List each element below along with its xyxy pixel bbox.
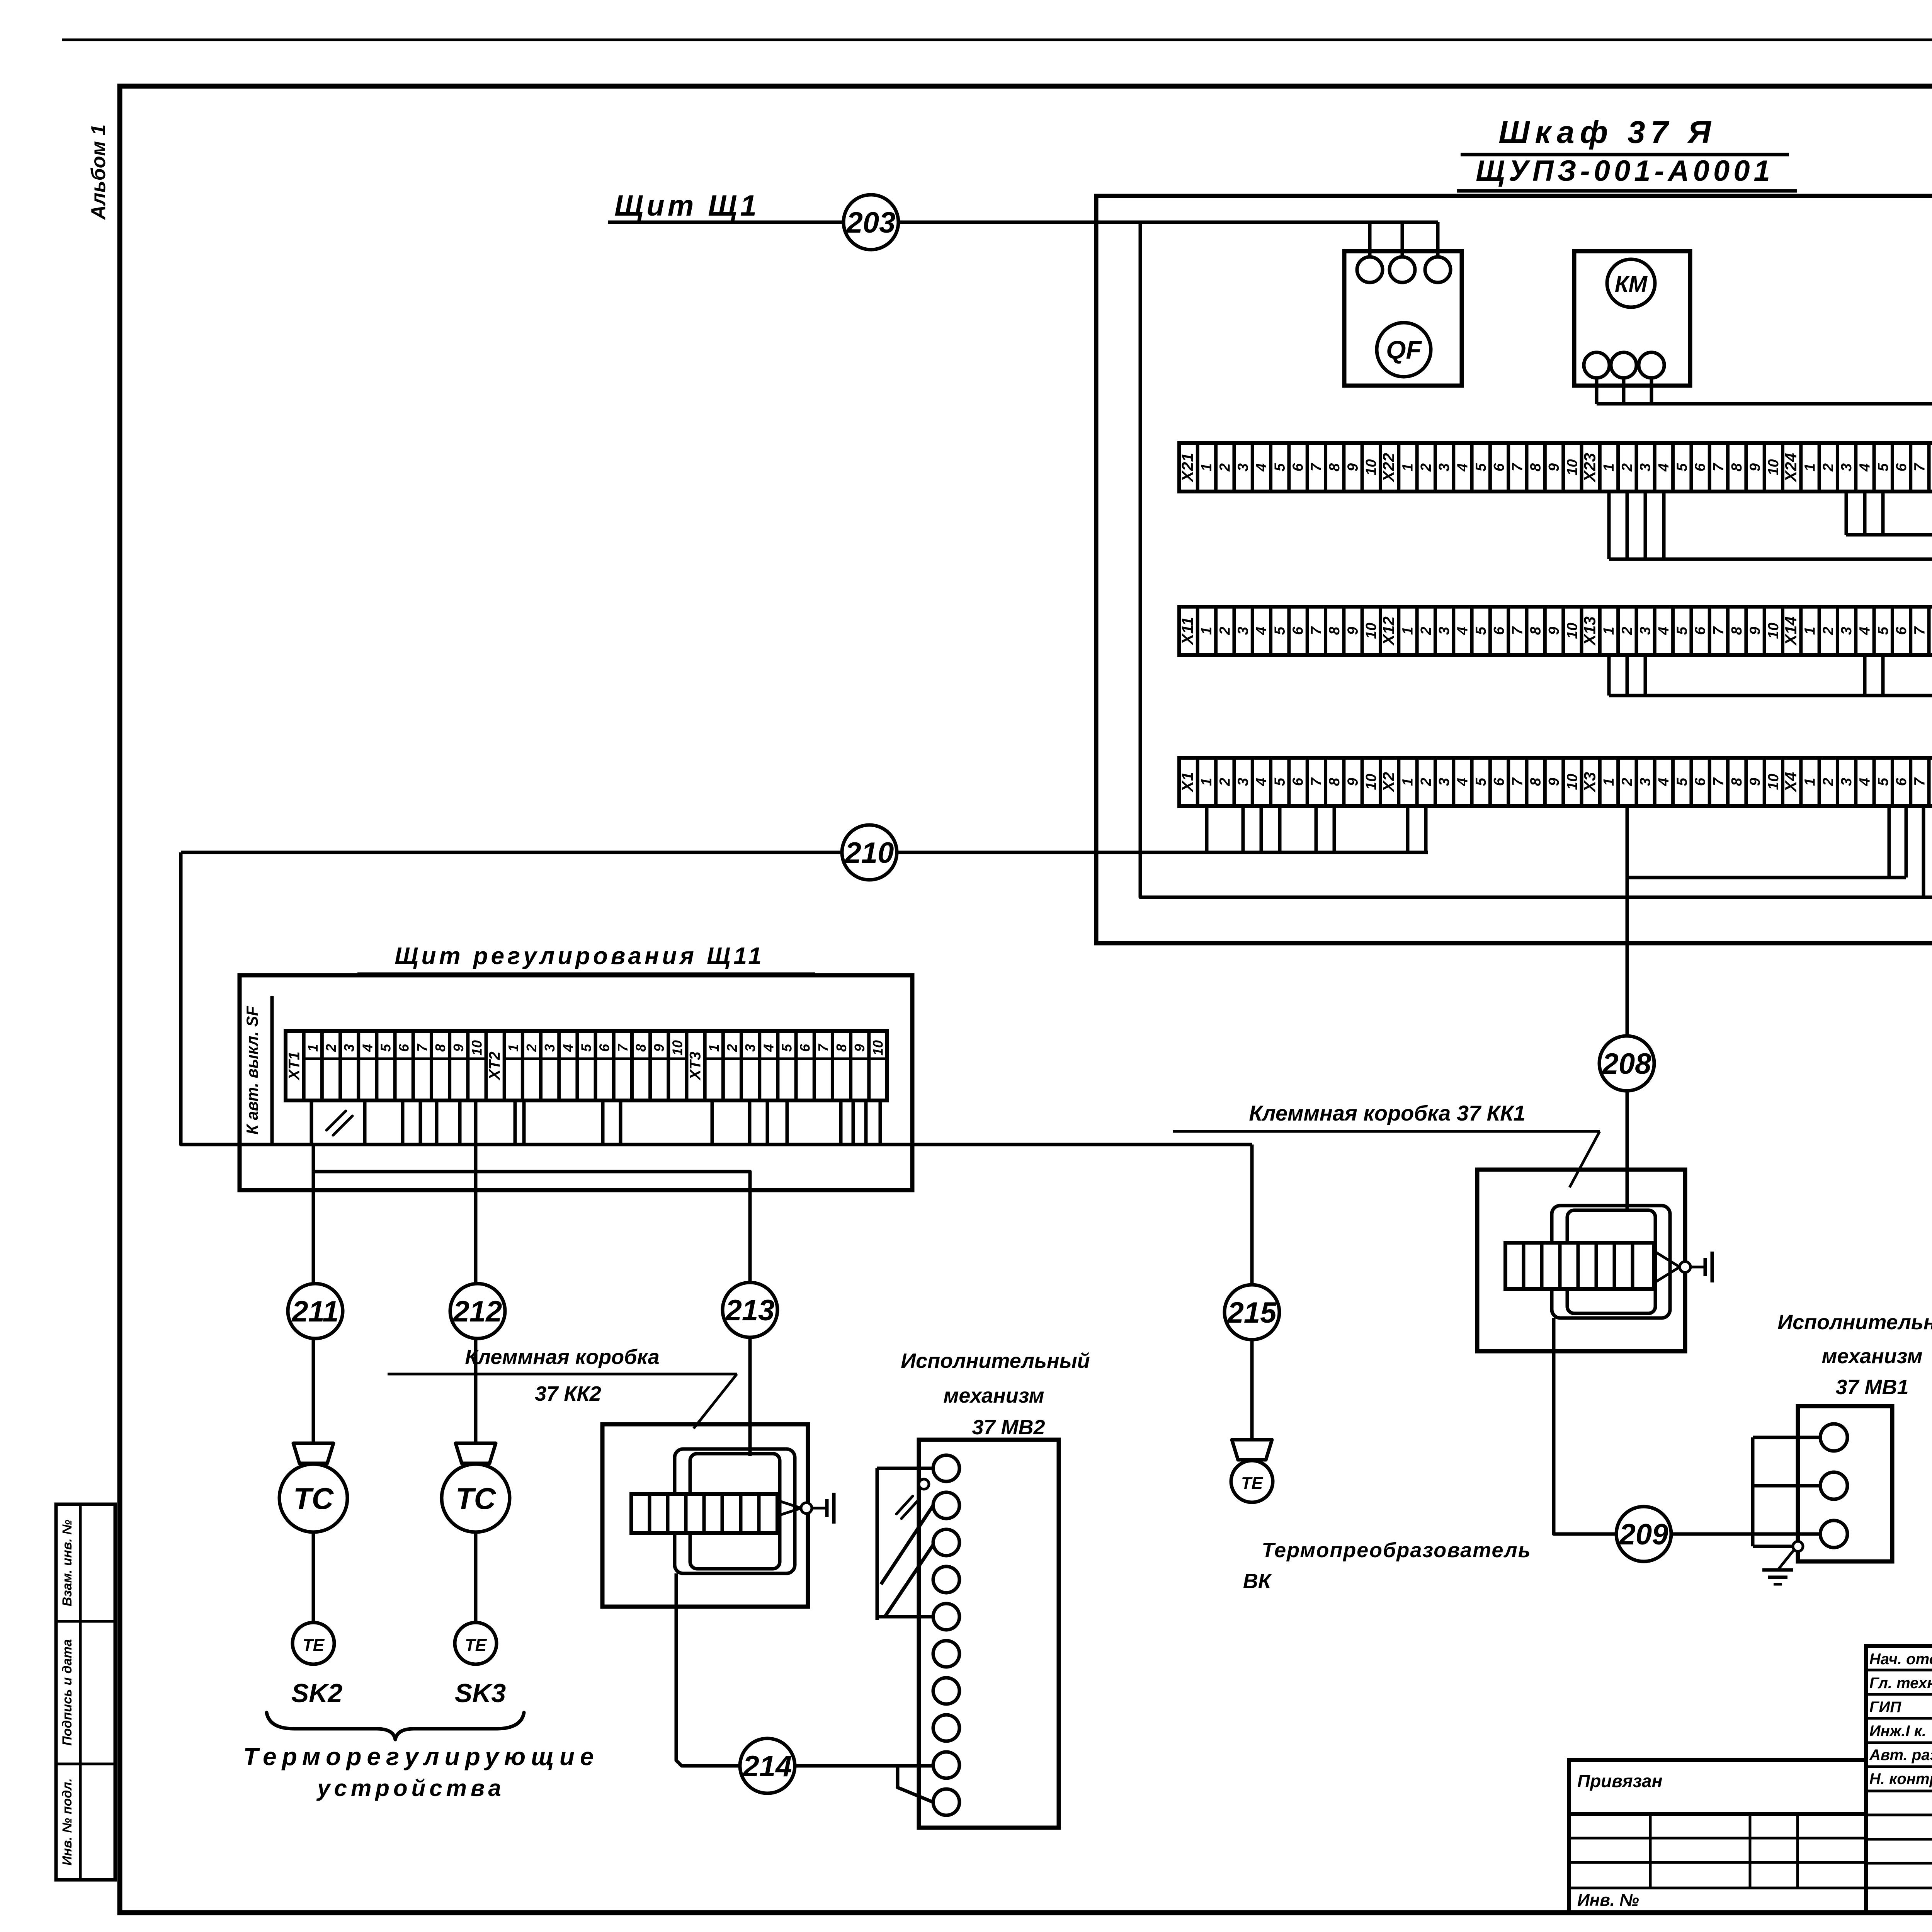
- svg-text:1: 1: [1199, 463, 1215, 471]
- svg-text:5: 5: [779, 1044, 795, 1052]
- wire 207 bus: [1609, 694, 1932, 697]
- svg-text:X12: X12: [1379, 616, 1398, 646]
- svg-text:10: 10: [1765, 622, 1782, 639]
- svg-text:Гл. техн-: Гл. техн-: [1869, 1675, 1932, 1692]
- svg-text:ТЕ: ТЕ: [465, 1636, 487, 1655]
- svg-text:Клеммная коробка 37 КК1: Клеммная коробка 37 КК1: [1249, 1101, 1525, 1125]
- junction box КК1: [1477, 1170, 1685, 1351]
- КК2 terminal block: [631, 1494, 777, 1533]
- svg-text:203: 203: [846, 206, 896, 239]
- svg-text:7: 7: [1912, 626, 1928, 635]
- svg-text:1: 1: [505, 1044, 521, 1052]
- wire 207 drops from X14 cells 4-5: [1863, 655, 1867, 696]
- page scan border: [62, 39, 1932, 41]
- svg-text:3: 3: [1838, 627, 1855, 635]
- svg-text:8: 8: [1327, 777, 1343, 786]
- svg-text:9: 9: [852, 1044, 867, 1052]
- wire 212 vertical: [474, 1145, 478, 1443]
- svg-text:8: 8: [833, 1044, 849, 1052]
- svg-text:SK2: SK2: [291, 1679, 342, 1708]
- svg-text:QF: QF: [1386, 335, 1422, 364]
- svg-text:Клеммная коробка: Клеммная коробка: [465, 1345, 659, 1369]
- svg-text:Инж.I к.: Инж.I к.: [1869, 1723, 1926, 1740]
- svg-text:9: 9: [1345, 463, 1361, 471]
- svg-text:1: 1: [1601, 463, 1617, 471]
- svg-text:7: 7: [1308, 626, 1325, 635]
- svg-text:4: 4: [560, 1044, 576, 1052]
- svg-text:3: 3: [1436, 463, 1452, 471]
- junction box КК2: [602, 1424, 808, 1607]
- regulator panel Щ11 box: [240, 975, 912, 1190]
- svg-text:8: 8: [1528, 626, 1544, 635]
- svg-text:2: 2: [524, 1044, 539, 1052]
- svg-text:1: 1: [1601, 778, 1617, 786]
- svg-text:Терморегулирующие: Терморегулирующие: [243, 1743, 599, 1770]
- svg-text:210: 210: [844, 837, 894, 869]
- svg-text:X13: X13: [1581, 616, 1599, 646]
- actuator МВ2 box: [919, 1440, 1059, 1828]
- svg-text:ТС: ТС: [293, 1481, 334, 1515]
- thermal converter funnel: [1232, 1440, 1272, 1460]
- svg-text:8: 8: [1528, 777, 1544, 786]
- svg-text:10: 10: [1765, 459, 1782, 475]
- svg-text:Альбом 1: Альбом 1: [87, 124, 110, 221]
- thermal sensor TE SK2: [293, 1622, 334, 1664]
- svg-text:6: 6: [797, 1044, 813, 1052]
- QF pole terminals: [1357, 257, 1383, 282]
- svg-text:3: 3: [1638, 463, 1654, 471]
- svg-text:9: 9: [1546, 778, 1562, 786]
- svg-text:8: 8: [1729, 463, 1745, 471]
- svg-text:5: 5: [1272, 777, 1288, 786]
- wire bus to 215: [912, 1143, 1252, 1146]
- svg-text:6: 6: [1893, 626, 1910, 635]
- wire 213 into box КК2: [748, 1310, 752, 1456]
- svg-text:ТС: ТС: [456, 1481, 497, 1515]
- svg-text:2: 2: [1418, 463, 1434, 472]
- wire 203 horizontal from panel Щ1 into cabinet: [608, 221, 1438, 224]
- wire 208 vertical from X3 cell 2 to box КК1: [1626, 806, 1629, 1212]
- МВ1 terminals: [1820, 1424, 1847, 1451]
- svg-text:7: 7: [1912, 463, 1928, 471]
- svg-text:4: 4: [359, 1044, 375, 1052]
- svg-text:4: 4: [1857, 778, 1873, 786]
- svg-text:X11: X11: [1179, 617, 1197, 646]
- svg-text:3: 3: [1436, 627, 1452, 635]
- svg-text:7: 7: [1912, 777, 1928, 786]
- svg-text:9: 9: [1747, 778, 1764, 786]
- svg-text:2: 2: [1820, 627, 1837, 635]
- svg-text:5: 5: [1674, 626, 1690, 635]
- svg-text:4: 4: [1857, 463, 1873, 472]
- breaker QF box: [1344, 251, 1462, 386]
- svg-text:1: 1: [1802, 627, 1818, 635]
- КК2 cable frame outer: [675, 1449, 795, 1573]
- svg-text:X4: X4: [1782, 772, 1800, 793]
- svg-text:7: 7: [815, 1043, 831, 1052]
- svg-text:8: 8: [1327, 463, 1343, 471]
- svg-text:7: 7: [1711, 463, 1727, 471]
- wire 203 drop inside cabinet: [1140, 222, 1932, 897]
- svg-text:37 КК2: 37 КК2: [535, 1382, 601, 1405]
- svg-text:3: 3: [1838, 778, 1855, 786]
- cable circle 215: [1225, 1285, 1279, 1340]
- svg-text:4: 4: [1454, 627, 1471, 635]
- svg-text:6: 6: [597, 1044, 612, 1052]
- svg-text:4: 4: [760, 1044, 776, 1052]
- label К авт. выкл. SF: [270, 996, 274, 1145]
- svg-text:7: 7: [1509, 626, 1526, 635]
- svg-text:Термопреобразователь: Термопреобразователь: [1262, 1539, 1531, 1562]
- wire PE riser to X4 cell 7: [1922, 806, 1925, 897]
- svg-text:6: 6: [1491, 777, 1507, 786]
- KM output terminals: [1584, 352, 1609, 378]
- svg-text:XT1: XT1: [286, 1051, 303, 1080]
- svg-text:5: 5: [1875, 463, 1891, 471]
- svg-text:3: 3: [1235, 463, 1252, 471]
- svg-text:6: 6: [1893, 463, 1910, 471]
- svg-text:10: 10: [469, 1040, 485, 1056]
- terminal strip XT1 XT2 XT3: [286, 1031, 887, 1100]
- cable circle 213: [723, 1282, 777, 1337]
- svg-text:Шкаф 37 Я: Шкаф 37 Я: [1498, 115, 1716, 150]
- svg-text:ТЕ: ТЕ: [303, 1636, 325, 1655]
- МВ2 diagonal links: [881, 1505, 933, 1584]
- svg-text:4: 4: [1656, 778, 1672, 786]
- svg-text:9: 9: [651, 1044, 667, 1052]
- svg-text:6: 6: [1692, 777, 1709, 786]
- svg-text:10: 10: [1564, 459, 1580, 475]
- КК1 earth lead: [1655, 1252, 1680, 1282]
- МВ2 screen dot: [919, 1479, 929, 1489]
- wire drops to QF poles: [1368, 222, 1372, 257]
- svg-text:ЩУПЗ-001-А0001: ЩУПЗ-001-А0001: [1476, 155, 1774, 187]
- svg-text:1: 1: [1400, 778, 1416, 786]
- svg-text:9: 9: [1747, 627, 1764, 635]
- cable screen mark: [327, 1111, 352, 1135]
- svg-text:Н. контр-: Н. контр-: [1869, 1770, 1932, 1787]
- svg-text:X2: X2: [1379, 772, 1398, 793]
- svg-text:механизм: механизм: [1821, 1345, 1922, 1368]
- svg-text:5: 5: [1473, 626, 1489, 635]
- thermal device funnel SK2: [293, 1443, 333, 1463]
- svg-text:5: 5: [1473, 777, 1489, 786]
- svg-text:4: 4: [1253, 463, 1270, 472]
- svg-text:КМ: КМ: [1615, 272, 1648, 297]
- svg-text:8: 8: [1729, 626, 1745, 635]
- svg-text:2: 2: [1619, 778, 1635, 786]
- svg-text:2: 2: [1217, 627, 1233, 635]
- svg-text:5: 5: [1875, 626, 1891, 635]
- cable circle 208: [1599, 1036, 1654, 1091]
- svg-text:208: 208: [1602, 1048, 1652, 1080]
- МВ2 feeder bus: [876, 1468, 879, 1620]
- svg-text:Инв. № подл.: Инв. № подл.: [60, 1778, 75, 1866]
- svg-text:Инв. №: Инв. №: [1577, 1891, 1639, 1910]
- МВ1 feeder bus: [1751, 1437, 1755, 1546]
- svg-text:3: 3: [742, 1044, 758, 1052]
- svg-text:10: 10: [870, 1040, 886, 1056]
- svg-text:7: 7: [1509, 463, 1526, 471]
- svg-text:2: 2: [1619, 463, 1635, 472]
- svg-text:9: 9: [1546, 463, 1562, 471]
- wire 215 vertical: [1250, 1145, 1254, 1440]
- svg-text:7: 7: [615, 1043, 631, 1052]
- svg-text:1: 1: [1199, 627, 1215, 635]
- svg-text:SK3: SK3: [455, 1679, 506, 1708]
- svg-text:5: 5: [1674, 463, 1690, 471]
- svg-text:3: 3: [1436, 778, 1452, 786]
- terminal strip X11 X12 X13 X14: [1179, 607, 1932, 655]
- wire 207 drops from X13 cells 1-3: [1607, 655, 1611, 696]
- thermal sensor TE SK3: [455, 1622, 497, 1664]
- svg-text:10: 10: [1765, 774, 1782, 790]
- svg-text:5: 5: [578, 1044, 594, 1052]
- left margin stamp cells: [56, 1504, 115, 1880]
- svg-text:7: 7: [1509, 777, 1526, 786]
- svg-text:X24: X24: [1782, 453, 1800, 483]
- МВ2 link to cell 10: [898, 1766, 933, 1802]
- wire 204 bus from KM to motor: [1595, 378, 1599, 404]
- svg-text:1: 1: [706, 1044, 722, 1052]
- brace for thermal devices: [267, 1713, 524, 1740]
- svg-text:XT2: XT2: [486, 1051, 503, 1080]
- title block signature table: [1866, 1646, 1932, 1913]
- svg-text:6: 6: [396, 1044, 412, 1052]
- svg-text:1: 1: [305, 1044, 321, 1052]
- svg-text:1: 1: [1601, 627, 1617, 635]
- contactor KM symbol circle: [1607, 259, 1655, 307]
- wire 213 line: [313, 1172, 750, 1310]
- svg-text:8: 8: [1930, 777, 1932, 786]
- svg-text:4: 4: [1454, 463, 1471, 472]
- svg-text:2: 2: [323, 1044, 339, 1052]
- svg-text:1: 1: [1802, 778, 1818, 786]
- cable circle 203: [844, 195, 898, 250]
- svg-text:Нач. отд: Нач. отд: [1869, 1651, 1932, 1668]
- КК2 cable frame inner: [690, 1454, 780, 1569]
- svg-text:5: 5: [378, 1044, 394, 1052]
- svg-text:4: 4: [1656, 463, 1672, 472]
- svg-text:1: 1: [1400, 627, 1416, 635]
- title block left sub table: [1569, 1814, 1866, 1913]
- svg-text:К авт. выкл. SF: К авт. выкл. SF: [243, 1005, 261, 1134]
- svg-text:215: 215: [1227, 1296, 1277, 1329]
- cable circle 214: [740, 1738, 795, 1793]
- thermal regulator TC SK2: [279, 1464, 347, 1532]
- svg-text:4: 4: [1253, 778, 1270, 786]
- svg-text:6: 6: [1491, 463, 1507, 471]
- svg-text:10: 10: [1363, 622, 1379, 639]
- svg-text:8: 8: [432, 1044, 448, 1052]
- wire 205 drops from X24 cells 2-4: [1845, 492, 1848, 535]
- svg-text:9: 9: [1747, 463, 1764, 471]
- svg-text:8: 8: [633, 1044, 649, 1052]
- svg-text:4: 4: [1656, 627, 1672, 635]
- svg-text:XT3: XT3: [687, 1051, 704, 1080]
- svg-text:6: 6: [1692, 626, 1709, 635]
- svg-text:1: 1: [1802, 463, 1818, 471]
- svg-text:6: 6: [1290, 463, 1306, 471]
- svg-text:212: 212: [452, 1295, 502, 1328]
- svg-text:1: 1: [1199, 778, 1215, 786]
- svg-text:5: 5: [1272, 463, 1288, 471]
- wire 205 bus to post ПУ1: [1846, 533, 1932, 537]
- cable circle 212: [450, 1284, 505, 1338]
- thermal regulator TC SK3: [442, 1464, 510, 1532]
- svg-text:3: 3: [542, 1044, 558, 1052]
- svg-text:ГИП: ГИП: [1869, 1699, 1901, 1716]
- svg-text:2: 2: [1619, 627, 1635, 635]
- svg-text:8: 8: [1930, 626, 1932, 635]
- wire 209 from КК1 to МВ1: [1554, 1318, 1753, 1534]
- wire 210 risers to X1/X2 cells: [1205, 806, 1209, 852]
- svg-text:2: 2: [1820, 778, 1837, 786]
- svg-text:9: 9: [1345, 778, 1361, 786]
- svg-text:ТЕ: ТЕ: [1241, 1474, 1264, 1493]
- svg-text:10: 10: [669, 1040, 685, 1056]
- svg-text:3: 3: [1638, 627, 1654, 635]
- svg-text:2: 2: [1418, 778, 1434, 786]
- svg-text:5: 5: [1272, 626, 1288, 635]
- wire 210 drop to panel Щ11: [181, 852, 1252, 1145]
- wire 208 side bus to X4 cells 5-6: [1627, 876, 1906, 879]
- svg-text:10: 10: [1363, 459, 1379, 475]
- thermal sensor TE ВК: [1231, 1461, 1273, 1502]
- svg-text:8: 8: [1528, 463, 1544, 471]
- svg-text:2: 2: [1418, 627, 1434, 635]
- КК1 cable frame outer: [1552, 1206, 1670, 1318]
- svg-text:214: 214: [742, 1750, 792, 1783]
- wire 206 drops from X23 cells 1-4: [1607, 492, 1611, 559]
- wire 206 bus: [1609, 558, 1932, 561]
- wire 210 bus from panel Щ11 to row X1: [181, 851, 1428, 854]
- title block left part Привязан: [1569, 1760, 1866, 1814]
- МВ2 terminals: [933, 1455, 959, 1481]
- strip number row divider: [304, 1058, 486, 1060]
- svg-text:X22: X22: [1379, 453, 1398, 483]
- svg-text:9: 9: [451, 1044, 466, 1052]
- svg-text:213: 213: [725, 1294, 775, 1327]
- svg-text:Исполнительный: Исполнительный: [1777, 1311, 1932, 1334]
- КК1 terminal block: [1505, 1243, 1654, 1289]
- svg-text:устройства: устройства: [316, 1775, 505, 1801]
- terminal strip X21 X22 X23 X24: [1179, 443, 1932, 492]
- svg-text:3: 3: [1235, 778, 1252, 786]
- svg-text:209: 209: [1619, 1518, 1668, 1551]
- svg-text:9: 9: [1345, 627, 1361, 635]
- svg-text:7: 7: [1308, 777, 1325, 786]
- svg-text:2: 2: [1217, 463, 1233, 472]
- wire 214 from КК2 to МВ2: [676, 1573, 933, 1766]
- svg-text:37 МВ1: 37 МВ1: [1835, 1376, 1908, 1399]
- svg-text:5: 5: [1875, 777, 1891, 786]
- svg-text:5: 5: [1473, 463, 1489, 471]
- svg-text:4: 4: [1857, 627, 1873, 635]
- svg-text:2: 2: [724, 1044, 740, 1052]
- svg-text:Подпись и дата: Подпись и дата: [60, 1639, 75, 1746]
- svg-text:211: 211: [291, 1295, 338, 1328]
- ground symbol МВ1: [1762, 1568, 1793, 1572]
- svg-text:X23: X23: [1581, 453, 1599, 483]
- svg-text:6: 6: [1692, 463, 1709, 471]
- svg-text:X1: X1: [1179, 772, 1197, 793]
- svg-text:3: 3: [341, 1044, 357, 1052]
- svg-text:6: 6: [1893, 777, 1910, 786]
- svg-text:X3: X3: [1581, 772, 1599, 793]
- svg-text:4: 4: [1253, 627, 1270, 635]
- svg-text:8: 8: [1729, 777, 1745, 786]
- cable circle 209: [1616, 1507, 1671, 1561]
- svg-text:37 МВ2: 37 МВ2: [972, 1416, 1045, 1439]
- svg-text:X21: X21: [1179, 453, 1197, 483]
- svg-text:Привязан: Привязан: [1577, 1771, 1662, 1791]
- МВ2 cable screen mark: [896, 1496, 918, 1519]
- cable circle 211: [288, 1284, 343, 1338]
- КК2 earth lead: [780, 1501, 801, 1515]
- wire 211 vertical: [312, 1145, 315, 1443]
- svg-text:Щит регулирования Щ11: Щит регулирования Щ11: [395, 943, 764, 969]
- svg-text:Исполнительный: Исполнительный: [901, 1349, 1090, 1372]
- svg-text:10: 10: [1564, 774, 1580, 790]
- svg-text:5: 5: [1674, 777, 1690, 786]
- svg-text:8: 8: [1930, 463, 1932, 471]
- svg-text:1: 1: [1400, 463, 1416, 471]
- svg-text:3: 3: [1838, 463, 1855, 471]
- svg-text:7: 7: [1711, 626, 1727, 635]
- svg-text:X14: X14: [1782, 616, 1800, 646]
- contactor KM box: [1574, 251, 1690, 386]
- svg-text:6: 6: [1290, 777, 1306, 786]
- cable circle 210: [842, 825, 897, 880]
- КК1 cable frame inner: [1567, 1210, 1655, 1313]
- svg-text:Авт. разд: Авт. разд: [1869, 1747, 1932, 1764]
- svg-text:Взам. инв. №: Взам. инв. №: [60, 1520, 75, 1607]
- svg-text:7: 7: [1308, 463, 1325, 471]
- svg-text:3: 3: [1235, 627, 1252, 635]
- svg-text:механизм: механизм: [943, 1384, 1044, 1407]
- actuator МВ1 box: [1798, 1406, 1892, 1561]
- svg-text:4: 4: [1454, 778, 1471, 786]
- Щ11 strip drop wires: [310, 1100, 313, 1145]
- cabinet box Шкаф 37Я: [1096, 196, 1932, 943]
- svg-text:10: 10: [1363, 774, 1379, 790]
- svg-text:7: 7: [414, 1043, 430, 1052]
- breaker QF symbol circle: [1377, 323, 1431, 377]
- svg-text:2: 2: [1217, 778, 1233, 786]
- terminal strip X1 X2 X3 X4: [1179, 758, 1932, 806]
- svg-text:3: 3: [1638, 778, 1654, 786]
- svg-text:2: 2: [1820, 463, 1837, 472]
- svg-text:ВК: ВК: [1243, 1570, 1272, 1593]
- svg-text:10: 10: [1564, 622, 1580, 639]
- svg-text:7: 7: [1711, 777, 1727, 786]
- svg-text:8: 8: [1327, 626, 1343, 635]
- thermal device funnel SK3: [456, 1443, 496, 1463]
- svg-text:6: 6: [1290, 626, 1306, 635]
- svg-text:9: 9: [1546, 627, 1562, 635]
- МВ1 earth branch: [1753, 1545, 1793, 1548]
- svg-text:6: 6: [1491, 626, 1507, 635]
- svg-text:Щит Щ1: Щит Щ1: [614, 189, 760, 222]
